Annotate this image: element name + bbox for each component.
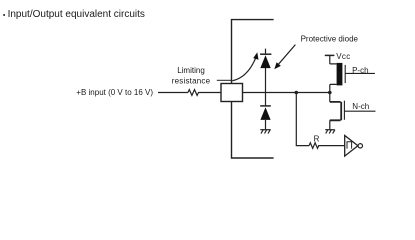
svg-text:resistance: resistance (172, 76, 211, 85)
svg-text:+B input (0 V to 16 V): +B input (0 V to 16 V) (76, 88, 153, 97)
svg-text:Vcc: Vcc (336, 52, 350, 61)
svg-text:Input/Output equivalent circui: Input/Output equivalent circuits (8, 9, 145, 20)
svg-text:R: R (314, 134, 320, 143)
svg-text:N-ch: N-ch (352, 102, 369, 111)
svg-text:Limiting: Limiting (177, 66, 205, 75)
svg-text:Protective diode: Protective diode (301, 34, 359, 43)
